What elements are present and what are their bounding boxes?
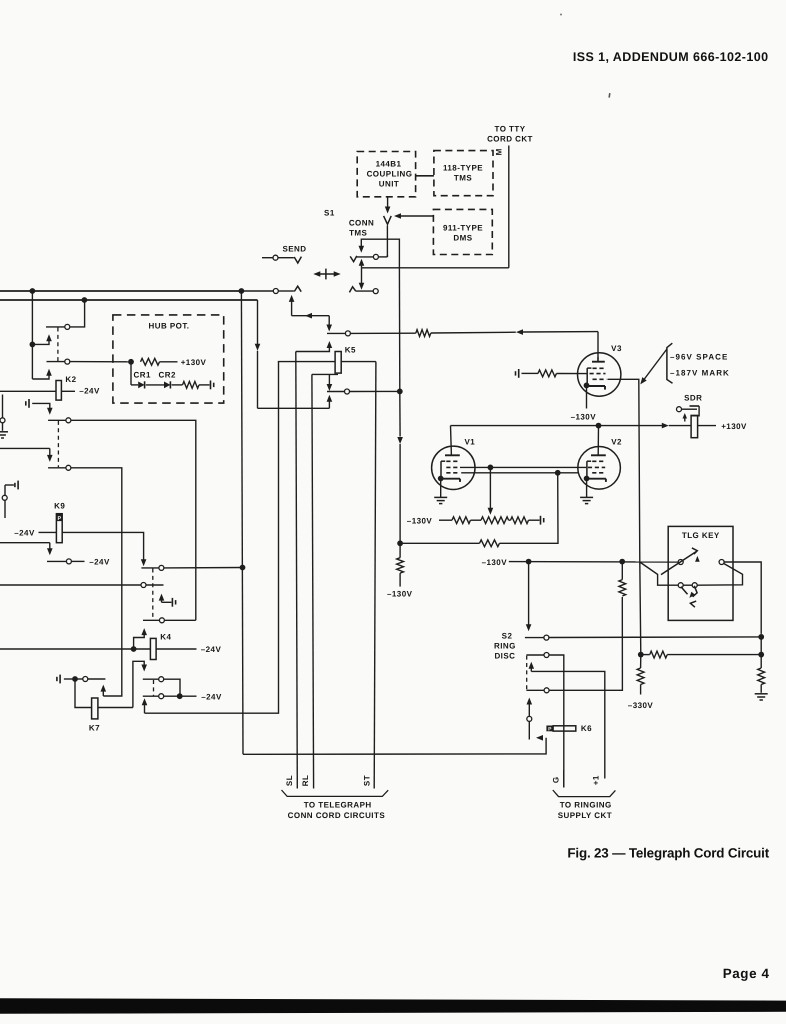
wire TLG left diagonal (640, 562, 678, 585)
wire contact line y561 stub (47, 560, 66, 562)
wire contact line y679 stub (143, 678, 159, 680)
mechanical link dashed x153 K7 (153, 680, 155, 696)
wire V1 plate drop (450, 426, 453, 456)
label V3 (611, 344, 622, 353)
wire G lead lower (563, 770, 565, 788)
callout diagonal arrow (640, 349, 667, 384)
wire contact y468 to vertical x122 (71, 468, 122, 696)
wire K7 coil line (98, 707, 133, 709)
label -130V pot line (407, 516, 433, 525)
wire contact y561 lead (71, 560, 84, 562)
wire contact y327 to bus2 drop (70, 300, 85, 327)
capacitor-ground K7 (57, 675, 73, 684)
wire vertical RL (312, 374, 314, 788)
svg-text:Fig. 23 — Telegraph Cord Circu: Fig. 23 — Telegraph Cord Circuit (567, 846, 769, 861)
svg-text:CR1: CR1 (134, 370, 151, 379)
wire contact y391 to bus (350, 390, 400, 392)
wire S1 lower contact line (356, 290, 373, 292)
wire blade arrow up (695, 556, 700, 562)
box 911-TYPE DMS (dashed) (433, 209, 492, 254)
tube V3 plate (592, 357, 605, 362)
footer Page 4 (723, 966, 770, 981)
label CR1 (134, 370, 151, 379)
label V1 (464, 438, 475, 447)
relay K7 coil (92, 698, 98, 719)
resistor -330V (637, 668, 644, 685)
wire K9 lower line (0, 543, 53, 556)
mechanical link dashed S2 (526, 656, 528, 690)
wire contact y361 into hub pot (70, 361, 131, 363)
wire line y585 from left (0, 584, 141, 586)
label ST (rotated) (363, 775, 372, 786)
junction dot bus1 x32 (30, 288, 36, 294)
contact circle TLG left (678, 560, 683, 565)
svg-text:TLG KEY: TLG KEY (682, 531, 720, 540)
label HUB POT. (149, 321, 190, 330)
relay K5 coil (335, 352, 341, 374)
svg-text:CONN: CONN (349, 218, 374, 227)
svg-text:–130V: –130V (387, 590, 413, 599)
wire conn tms vertical (386, 226, 388, 257)
contact bus1 caret (294, 286, 301, 292)
wire contact line y333 stub (327, 332, 345, 334)
svg-text:V3: V3 (611, 344, 622, 353)
label CR2 (159, 370, 176, 379)
label S1 (324, 208, 335, 217)
contact circle y391 (345, 389, 350, 394)
wire SEND stub (262, 257, 273, 259)
contact circle TLG lower-left (678, 583, 683, 588)
diode CR2 (164, 381, 170, 388)
wire armature link horizontal (258, 407, 330, 409)
junction dot bus2 x84 (82, 297, 88, 303)
wire dot to circle (77, 678, 83, 680)
wire V3 plate drop (597, 332, 599, 361)
capacitor to frame in hub pot (211, 381, 214, 390)
svg-text:S2: S2 (502, 632, 513, 641)
svg-text:TMS: TMS (349, 228, 367, 237)
wire armature with cap y602 (159, 594, 172, 603)
label SEND (282, 244, 306, 253)
wire contact line y568 (141, 567, 159, 569)
svg-text:+130V: +130V (181, 358, 207, 367)
wire pot line lead (439, 519, 452, 521)
svg-text:CONN CORD CIRCUITS: CONN CORD CIRCUITS (288, 811, 386, 820)
svg-text:RL: RL (301, 775, 310, 787)
wire contact y333 to resistor (350, 332, 415, 334)
resistor y333 (416, 330, 431, 337)
wire -330V branch (640, 655, 642, 668)
wire contact line y420 stub (48, 419, 66, 421)
contact circle x5 (2, 495, 7, 500)
wire arrow down to S1 make contact (359, 268, 365, 290)
label -24V of K2 (79, 387, 100, 396)
wire arrow left from 911-TYPE DMS (394, 213, 433, 219)
wire under-K5 link (312, 373, 338, 375)
wire SDR contact (681, 406, 699, 416)
wire armature1 to +1 lead (531, 671, 605, 778)
wire K5 coil line (278, 361, 376, 363)
svg-text:RING: RING (494, 642, 516, 651)
wire contact y568 to bus x242 (164, 567, 243, 569)
tube V1 grid support bar (441, 461, 445, 478)
wire y333 resistor to arrow (431, 331, 516, 334)
svg-text:+1: +1 (591, 775, 600, 785)
svg-text:–24V: –24V (79, 387, 100, 396)
wire resistor to -330V label (640, 685, 642, 695)
wire dot to resistor (641, 654, 650, 656)
wire V2 cathode to ground (586, 479, 588, 498)
svg-text:K5: K5 (345, 345, 356, 354)
junction dot x32 mid (30, 342, 36, 348)
wire SDR to +130V (698, 425, 716, 427)
label TO TELEGRAPH (304, 800, 372, 809)
wire bus x399 vertical lower (397, 391, 403, 543)
wire contact line y448 from left (0, 448, 53, 462)
label -96V SPACE (670, 353, 728, 362)
wire contact y696 through dot (164, 695, 197, 697)
wire K4 line from left (0, 648, 150, 650)
callout bracket (667, 343, 673, 383)
relay SDR coil (691, 415, 698, 437)
wire x400 below dot (399, 543, 401, 557)
wire resistor to cap (199, 384, 210, 386)
wire K4 armature down via K7 (133, 661, 147, 707)
wire V1 cathode to ground (440, 479, 442, 498)
resistor hub pot to +130V (141, 358, 160, 365)
wire to +130V label (160, 361, 178, 363)
wire S2 armature 1 (529, 662, 535, 672)
wire K5 armature top (296, 341, 332, 352)
resistor feedback (480, 540, 500, 547)
label RING (494, 642, 516, 651)
wire S2 contact1 line (525, 637, 544, 639)
label RL (rotated) (301, 775, 310, 787)
key blade upper (661, 548, 697, 575)
svg-text:K2: K2 (65, 375, 76, 384)
wire S2 branch down arrow (526, 562, 532, 632)
wire grid coupling upper (460, 466, 586, 468)
contact SEND V blade (294, 257, 301, 263)
contact S1 conn tms: V blade (350, 256, 357, 262)
svg-text:ISS 1, ADDENDUM 666-102-100: ISS 1, ADDENDUM 666-102-100 (573, 50, 769, 64)
wire K5 armature down (327, 374, 333, 391)
svg-text:COUPLING: COUPLING (367, 170, 413, 179)
label CONN CORD CIRCUITS (288, 811, 386, 820)
wire conn tms contact to corner (378, 255, 387, 257)
ground right (755, 694, 768, 700)
svg-text:ST: ST (363, 775, 372, 786)
box 144B1 coupling unit (dashed) (357, 152, 415, 197)
wire K7 contact stub (88, 678, 106, 680)
wire TMS loop bottom horizontal (362, 267, 509, 269)
label K6 (581, 724, 592, 733)
contact circle S2-2 (544, 653, 549, 658)
relay K6 coil (553, 726, 576, 731)
label SUPPLY CKT (558, 811, 612, 820)
svg-text:DMS: DMS (453, 234, 472, 243)
wire K7 armature arrow up (101, 685, 107, 696)
svg-text:S1: S1 (324, 208, 335, 217)
relay K9 coil (56, 514, 62, 543)
svg-text:–130V: –130V (482, 558, 508, 567)
wire K6 pull line (243, 735, 546, 754)
junction dot K7 gnd (72, 676, 78, 682)
svg-text:SEND: SEND (282, 244, 306, 253)
contact circle y620 (159, 618, 164, 623)
wire armature lower: to contact 361 (32, 369, 51, 379)
svg-text:DISC: DISC (494, 652, 515, 661)
junction dot x400 y543 (397, 540, 403, 546)
svg-text:P: P (57, 516, 61, 522)
wire resistor to right dot (667, 654, 761, 656)
wire bus2 corner down with arrow (255, 300, 261, 408)
diode CR1 (138, 381, 144, 388)
contact circle y468 (66, 465, 71, 470)
svg-text:144B1: 144B1 (376, 160, 402, 169)
label G (rotated) (551, 776, 560, 783)
label 911-TYPE DMS (443, 224, 483, 243)
wire S2 contact1 to TLG dot (549, 636, 759, 639)
bracket TO TELEGRAPH (282, 790, 389, 796)
svg-text:TO TELEGRAPH: TO TELEGRAPH (304, 800, 372, 809)
svg-text:UNIT: UNIT (379, 180, 399, 189)
contact circle TLG right (719, 560, 724, 565)
capacitor-ground V3 grid (516, 369, 533, 378)
wire K7 to ground branch (75, 679, 92, 708)
wire contact line y391 stub (327, 391, 345, 393)
tube V2 cathode (588, 479, 606, 482)
contact circle conn tms (373, 254, 378, 259)
label -24V of K7 contact (201, 692, 222, 701)
resistor x622 (619, 580, 626, 596)
wire TLG right to corner (724, 562, 761, 634)
relay K2 coil (56, 381, 61, 401)
wire K9 to vertical x143 (62, 532, 146, 566)
contact circle y696 (159, 694, 164, 699)
wire S2 contact3 to x622 (549, 597, 622, 690)
label V2 (611, 438, 622, 447)
svg-text:–24V: –24V (14, 529, 35, 538)
svg-text:SDR: SDR (684, 394, 702, 403)
resistor to right (650, 651, 668, 658)
wire hub pot branch down (131, 362, 138, 385)
svg-text:K6: K6 (581, 724, 592, 733)
wire SDR armature arrow (683, 413, 688, 422)
svg-text:–330V: –330V (628, 701, 654, 710)
resistor after CR2 (183, 382, 200, 389)
resistor right vertical (758, 668, 765, 685)
wire linkage arrow assembly (289, 295, 332, 332)
wire contact line y327 left stub (46, 326, 65, 328)
label K5 (345, 345, 356, 354)
label +130V (721, 422, 747, 431)
contact circle S2-3 (544, 688, 549, 693)
wire bus x399 vertical upper (398, 268, 400, 392)
contact circle y361 (65, 359, 70, 364)
tube V2 envelope (578, 447, 621, 490)
wire vertical from bus1 dot (31, 291, 33, 379)
label K4 (160, 632, 171, 641)
svg-text:+130V: +130V (721, 422, 747, 431)
key blade lower (681, 586, 697, 607)
contact circle y327 (65, 324, 70, 329)
wire S2 contact2 to G lead (549, 655, 564, 788)
wire x400 resistor to label (399, 573, 401, 587)
svg-text:CR2: CR2 (159, 370, 176, 379)
tube V3 cathode (588, 386, 605, 390)
junction dot -330V branch (638, 652, 644, 658)
mechanical link dashed x153 K4 (152, 569, 154, 620)
junction dot hub pot input (128, 359, 134, 365)
contact circle y420 (66, 418, 71, 423)
tube V2 plate (591, 454, 606, 456)
wire grid coupling lower (461, 472, 578, 474)
wire V2 plate drop (597, 426, 599, 456)
tube V1 envelope (432, 446, 475, 489)
wire contact y679 corner to dot (164, 679, 180, 693)
label TO RINGING (560, 800, 612, 809)
label -187V MARK (670, 368, 730, 377)
junction dot V2 plate (596, 423, 602, 429)
wire bus1 to contact (241, 290, 273, 292)
wire S2 armature 2 (527, 698, 533, 740)
wire armature arrow up from TMS loop (359, 259, 365, 268)
svg-text:SL: SL (285, 775, 294, 786)
svg-text:–130V: –130V (407, 516, 433, 525)
svg-text:SUPPLY CKT: SUPPLY CKT (558, 811, 612, 820)
label K7 (89, 724, 100, 733)
label SL (rotated) (285, 775, 294, 786)
caption Fig. 23 - Telegraph Cord Circuit (567, 846, 769, 861)
svg-text:–187V MARK: –187V MARK (670, 368, 730, 377)
wire left edge vertical (2, 395, 4, 431)
mechanical link dashed x58 lower (57, 421, 59, 467)
wire conn-tms bracket (359, 239, 400, 268)
junction dot K4 (131, 646, 137, 652)
relay K6 P marker (546, 726, 553, 733)
artifact dot (560, 14, 562, 16)
label +1 (rotated) (591, 775, 600, 785)
wire TO TTY vertical down to TMS loop (508, 146, 510, 268)
junction dot x242 y567 (240, 565, 246, 571)
label CONN TMS (349, 218, 374, 237)
wire vertical ST (374, 362, 376, 789)
wire K2 line from left edge (0, 390, 56, 392)
wire contact line y361 left stub (47, 361, 65, 363)
wire contact line y620 stub (143, 619, 159, 621)
svg-text:TO RINGING: TO RINGING (560, 800, 612, 809)
label +130V (181, 358, 207, 367)
wire feedback to V2 grid node (500, 473, 559, 544)
label TLG KEY (682, 531, 720, 540)
svg-text:911-TYPE: 911-TYPE (443, 224, 483, 233)
wire -24V to K9 (39, 531, 57, 533)
svg-text:TO TTY: TO TTY (495, 125, 526, 134)
contact circle y333 (345, 331, 350, 336)
junction dot V2 cathode (584, 476, 590, 482)
svg-text:K7: K7 (89, 724, 100, 733)
label -130V S2 line (482, 558, 508, 567)
wire V3 grid lead (557, 373, 588, 375)
svg-text:–130V: –130V (571, 412, 597, 421)
wire contact line y468 stub (48, 467, 66, 469)
ground left edge (0, 432, 8, 438)
contact circle bus1 (273, 289, 278, 294)
tube V1 cathode (443, 479, 461, 482)
header ISS 1, ADDENDUM 666-102-100 (573, 50, 769, 64)
wire CR1 to CR2 (146, 384, 164, 386)
wire x622 above resistor (621, 562, 623, 580)
wire grid resistor to cap (532, 372, 538, 374)
artifact apostrophe (608, 93, 610, 98)
wire pot wiper arrow (488, 467, 494, 514)
label -24V of K4 (201, 645, 222, 654)
box 118-TYPE TMS (dashed) (434, 151, 493, 196)
mechanical link dashed x58 upper (57, 328, 59, 362)
wire bus line 1 (0, 290, 241, 292)
junction dot x622 branch (619, 559, 625, 565)
resistor pot line right (511, 517, 529, 524)
wire contact y620 to corner x196 (164, 619, 196, 621)
wire V3 side output (608, 379, 640, 562)
resistor pot line left (452, 517, 470, 524)
svg-text:–24V: –24V (89, 557, 110, 566)
wire plate bus y425 (451, 425, 663, 427)
junction dot right resistor (758, 652, 764, 658)
wire contact line y696 stub (143, 695, 159, 697)
tube V1 plate (445, 454, 460, 456)
wire link y713 to vertical x278 (145, 362, 279, 714)
tube V3 grid support bar (587, 368, 591, 385)
wire pot right lead (509, 519, 511, 521)
wire bus line 2 (0, 299, 258, 301)
wire inline arrow left on plate line (516, 329, 598, 335)
tube V3 envelope (578, 353, 621, 396)
wire right resistor to ground (760, 685, 762, 693)
ground V1 (434, 497, 447, 503)
label -130V V3 cathode (571, 412, 597, 421)
svg-text:118-TYPE: 118-TYPE (443, 164, 483, 173)
label -24V of K9 (14, 529, 35, 538)
label K9 (54, 502, 65, 511)
contact circle y568 (159, 565, 164, 570)
contact circle SEND (273, 255, 278, 260)
wire bus x242 (241, 291, 243, 754)
wire to cap (529, 519, 540, 521)
wire armature upper: to contact 327 (32, 334, 51, 344)
svg-text:Page 4: Page 4 (723, 966, 770, 981)
junction dot feedback (555, 470, 561, 476)
contact circle y679 (159, 677, 164, 682)
contact circle S1 lower (373, 289, 378, 294)
resistor vertical x400 (397, 558, 404, 573)
wire arrow into SDR (662, 423, 691, 429)
tube V1 grid dashes (446, 461, 459, 473)
svg-text:K4: K4 (160, 632, 171, 641)
wire TLG vertical lower (640, 562, 641, 655)
box TLG KEY (668, 526, 733, 620)
contact circle y585 (141, 583, 146, 588)
wire cap to corner and arrow down (32, 403, 52, 414)
tube V2 grid support bar (587, 461, 591, 478)
svg-text:–24V: –24V (201, 645, 222, 654)
wire K2 to -24V (61, 390, 75, 392)
capacitor-ground upper left (26, 399, 29, 408)
wire between 144B1 and 118-TYPE (416, 175, 434, 177)
bottom black bar (0, 998, 786, 1014)
label 144B1 COUPLING UNIT (367, 160, 413, 189)
